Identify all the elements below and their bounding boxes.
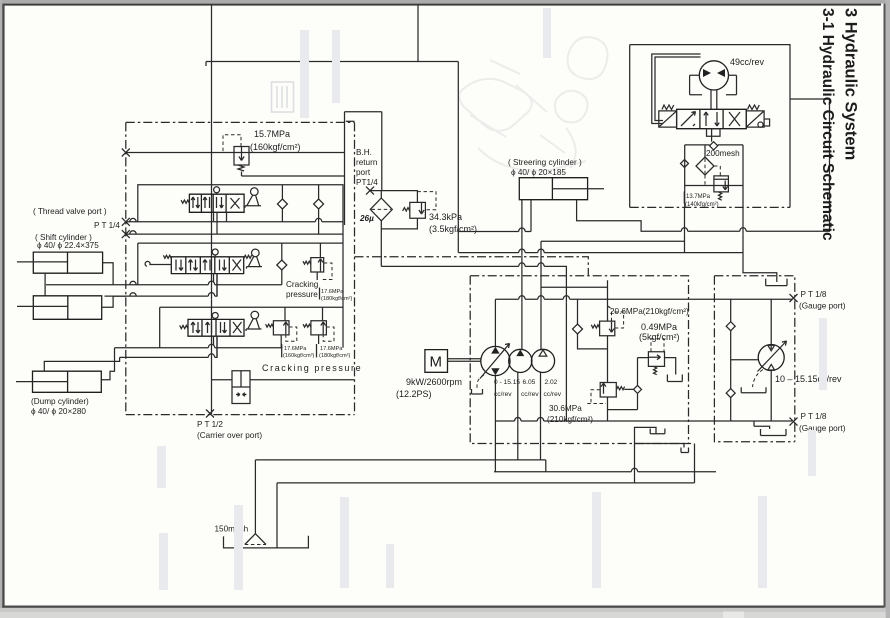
node: port X lower <box>122 230 130 238</box>
valve RV6 20.6MPa relief <box>600 321 615 336</box>
wire: right block check riser <box>730 299 732 421</box>
wire: jumper y111.7 to B.H. drop <box>345 111 382 113</box>
valve RV8 0.49MPa <box>648 352 664 367</box>
port circle of V2 <box>212 249 218 255</box>
wire: V3 bottom ports <box>214 336 218 357</box>
spring left of V4 <box>662 105 674 110</box>
wire: return L2 y482.9 <box>277 482 695 484</box>
svg-text:2.02: 2.02 <box>545 379 558 386</box>
wire: CYL1 right port <box>103 263 114 285</box>
wire: RV3 feed from row2 top <box>317 243 320 280</box>
svg-text:cc/rev: cc/rev <box>521 391 539 398</box>
spring of RV7 right <box>616 387 624 390</box>
scan bottom small tab <box>723 612 744 618</box>
valve V3 dump spool <box>188 319 244 336</box>
wire: CYL3 top port <box>44 357 119 371</box>
scan bottom gray margin <box>0 608 890 618</box>
svg-text:port: port <box>356 168 371 177</box>
scan right gray margin <box>886 0 890 618</box>
tank T0 main <box>224 536 309 548</box>
svg-text:B.H.: B.H. <box>356 148 372 157</box>
control dash of P1 <box>477 375 484 389</box>
svg-text:3-1 Hydraulic Circuit Schemati: 3-1 Hydraulic Circuit Schematic <box>819 8 836 241</box>
valve RV2 34.3kPa relief <box>410 202 426 218</box>
wire: CYL2 right port <box>102 296 126 307</box>
svg-text:0.49MPa: 0.49MPa <box>641 322 677 332</box>
port circle of V1 <box>214 187 220 193</box>
valve RV9 13.7MPa relief <box>714 176 729 192</box>
spring of V2 right <box>244 255 252 258</box>
pilot dash of RV6 <box>612 312 624 328</box>
check valve CV5 diamond <box>634 385 642 393</box>
wire: pressure gallery y299.2 <box>495 298 792 300</box>
ghost text columns (bleed-through) <box>157 446 166 488</box>
solenoid box right of V4 <box>746 111 764 127</box>
wire: row3 work line y347.8 <box>115 347 283 349</box>
svg-text:(Gauge port): (Gauge port) <box>799 302 846 311</box>
spring of RV6 <box>591 325 599 328</box>
piston rod of CYL2 <box>17 305 68 307</box>
port circle of V3 <box>212 313 218 319</box>
scan top edge dark line <box>3 4 881 6</box>
wire: pump3 feed line y287.2 into block <box>541 286 608 288</box>
spring of RV5 <box>303 324 311 327</box>
valve RV1 15.7MPa relief <box>234 147 249 166</box>
cylinder CYL4 steering <box>519 178 587 200</box>
filter F1 26u diamond <box>370 198 392 221</box>
pilot dash of RV1 <box>223 135 241 153</box>
ghost bleed-through sketch top center <box>459 79 531 131</box>
svg-text:ϕ 40/ ϕ 22.4×375: ϕ 40/ ϕ 22.4×375 <box>37 241 99 250</box>
wire: CV1 stubs <box>281 185 283 222</box>
wire: vertical supply line from page top to PT1/2 <box>211 5 213 414</box>
tank symbol of P1 control <box>472 389 483 394</box>
wire: CV5 to 0.49MPa valve <box>608 358 649 410</box>
svg-text:(3.5kgf/cm²): (3.5kgf/cm²) <box>429 224 477 234</box>
wire: pump2 bus y266.4 <box>381 266 566 421</box>
check valve CV2 diamond <box>314 199 324 209</box>
svg-text:(160kgf/cm²): (160kgf/cm²) <box>250 142 301 152</box>
pump P2 <box>509 349 532 372</box>
svg-text:30.6MPa: 30.6MPa <box>549 404 582 413</box>
pilot dash of RV5 <box>323 327 334 341</box>
svg-text:(180kgf/cm²): (180kgf/cm²) <box>319 353 351 359</box>
arrow: MT2 variable stroke <box>758 341 787 372</box>
wire: RV5 feed <box>322 307 324 321</box>
pilot dash of RV4 <box>286 327 297 341</box>
wire: relief feed riser x607.5 <box>607 280 609 421</box>
wire: bank-to-block bus y256.7 (dash-dot) <box>355 257 589 276</box>
wire: bank pressure line y152.5 with port X <box>126 152 345 154</box>
wire: RV2 drain to filter line <box>381 218 417 229</box>
svg-text:(5kgf/cm²): (5kgf/cm²) <box>639 332 680 342</box>
scan bottom lighter strip <box>0 612 890 618</box>
pump P3 <box>531 349 554 372</box>
wire: CV4 branch <box>578 299 608 349</box>
node: PT1/8 X lower <box>790 418 798 426</box>
scan right edge dark line <box>884 4 886 608</box>
svg-text:10 – 15.15cc/rev: 10 – 15.15cc/rev <box>775 374 842 384</box>
check valve CV1 diamond <box>277 199 287 209</box>
tank T3 top <box>766 278 787 286</box>
piston rod of CYL4 <box>552 188 604 190</box>
node: valve bank row2 top line <box>138 243 343 285</box>
motor M prime mover box <box>425 350 448 373</box>
wire: pilot dash to 34.3kPa valve <box>417 192 436 210</box>
svg-text:26µ: 26µ <box>359 214 374 223</box>
svg-text:(Carrier over port): (Carrier over port) <box>197 431 262 440</box>
spring of V1 <box>181 200 189 203</box>
wire: CYL4 right port path <box>577 99 830 231</box>
node: PT1/8 X upper <box>790 294 798 302</box>
mount of MT1 <box>690 75 737 94</box>
spring of RV4 <box>266 324 274 327</box>
wire: CYL4 left port vertical <box>530 200 532 232</box>
filter F2 200mesh <box>696 157 714 175</box>
wire: L2 riser to tank T1 <box>635 427 657 483</box>
spring of RV8 below <box>654 366 657 374</box>
check valve CV4 bypass diamond <box>573 324 583 334</box>
svg-text:P T 1/8: P T 1/8 <box>801 290 827 299</box>
spring of RV9 below <box>719 192 722 200</box>
wire: H_a to tank T3 <box>743 253 777 278</box>
svg-text:P T 1/2: P T 1/2 <box>197 420 223 429</box>
spring of V3 <box>180 325 188 328</box>
node: port X PT1/4 thread <box>122 218 130 226</box>
svg-text:pressure: pressure <box>286 290 318 299</box>
wire: row3 work line y357.4 <box>120 336 217 357</box>
svg-text:(210kgf/cm²): (210kgf/cm²) <box>547 415 593 424</box>
svg-text:0 - 15.15: 0 - 15.15 <box>494 379 520 386</box>
wire: steering return legs below block <box>685 207 744 252</box>
wire: drain line y421 to right block <box>608 420 793 422</box>
tank T8 <box>741 387 766 393</box>
solenoid box left of V4 <box>659 111 677 127</box>
wire: CYL3 right port <box>101 348 114 380</box>
wire: work line y234.1 <box>126 233 343 235</box>
svg-text:cc/rev: cc/rev <box>544 391 562 398</box>
svg-text:200mesh: 200mesh <box>706 149 740 158</box>
svg-text:34.3kPa: 34.3kPa <box>429 212 462 222</box>
wire: P1 suction leg <box>494 376 496 472</box>
motor MT2 variable 10-15.15cc <box>758 345 784 371</box>
spring of RV2 <box>403 208 410 211</box>
wire: RV8 drain to tank <box>665 358 676 375</box>
ghost stamp box (bleed-through) <box>272 82 294 112</box>
svg-text:6.05: 6.05 <box>523 379 536 386</box>
wire: RV4 feed <box>284 307 286 321</box>
wire: work line y221.8 with port X <box>126 221 343 223</box>
check valve CV7 bypass diamond <box>681 160 689 168</box>
drain dash of MT2 <box>753 370 764 388</box>
svg-text:17.6MPa: 17.6MPa <box>320 346 343 352</box>
scan left gray margin <box>0 0 2 618</box>
check valve CV3 diamond <box>277 260 287 270</box>
check valve CV8 diamond upper <box>726 322 735 331</box>
svg-text:M: M <box>430 354 443 371</box>
wire: return L2 y482.9 drop to tank <box>276 483 278 548</box>
wire: filter vertical through <box>380 191 382 267</box>
wire: P2 discharge riser <box>521 200 523 350</box>
svg-text:(Gauge port): (Gauge port) <box>799 424 846 433</box>
wire: V1 bottom ports <box>214 212 227 234</box>
wire: filter feed <box>704 145 706 157</box>
svg-text:17.6MPa: 17.6MPa <box>321 289 344 295</box>
wire: CYL1 bottom port to manifold <box>44 273 46 296</box>
wire: RV5 bottom stub <box>318 335 320 344</box>
pilot dash of RV8 <box>651 339 664 352</box>
pilot dash of RV3 <box>321 263 333 280</box>
node: steering block enclosure <box>630 45 790 208</box>
detent circle of V4 <box>758 122 763 127</box>
svg-text:(12.2PS): (12.2PS) <box>396 389 432 399</box>
strainer 150mesh <box>245 534 266 545</box>
wire: P1 discharge to gallery <box>494 299 496 346</box>
valve RV5 cracking relief row3 B <box>311 321 327 335</box>
arrows inside MT1 <box>703 69 711 77</box>
svg-text:(160kgf/cm³): (160kgf/cm³) <box>283 353 315 359</box>
wire: steering return H_a y252.6 <box>458 252 743 254</box>
spring of V2 left <box>163 255 171 258</box>
wire: strainer drop x255.4 <box>254 460 256 534</box>
valve V1 thread spool <box>189 194 244 212</box>
tank stub under V4 center <box>707 129 721 137</box>
wire: motor loop left <box>652 54 701 124</box>
tank T1 <box>650 429 665 434</box>
svg-text:(140kfg/cm²): (140kfg/cm²) <box>685 202 719 208</box>
check valve CV6 diamond <box>710 142 718 150</box>
piston rod of CYL1 <box>17 261 68 263</box>
svg-text:49cc/rev: 49cc/rev <box>730 57 765 67</box>
scan top gray margin <box>0 0 890 4</box>
svg-text:13.7MPa: 13.7MPa <box>686 194 711 200</box>
wire: vertical x458.3 from top bus down to steering return <box>457 62 459 253</box>
wire: vertical from page top at x418 <box>417 5 419 62</box>
svg-text:15.7MPa: 15.7MPa <box>254 129 290 139</box>
cylinder CYL2 shift lower <box>33 296 101 320</box>
arrow: P1 variable stroke <box>480 344 510 379</box>
lever handle of V2 <box>145 261 171 266</box>
lever of V3 <box>251 311 259 319</box>
node: valve bank row3 top line <box>160 307 343 348</box>
wire: suction/return L3 y471.8 <box>494 471 716 473</box>
valve RV7 30.6MPa relief <box>600 383 616 398</box>
svg-text:20.6MPa(210kgf/cm²): 20.6MPa(210kgf/cm²) <box>610 307 689 316</box>
valve V4 steering spool <box>677 109 747 128</box>
node: B.H. return port X <box>366 187 374 195</box>
wire: suction line1 y459.9 <box>255 459 545 461</box>
wire: P3 discharge riser <box>540 241 542 349</box>
cylinder CYL1 shift upper <box>33 252 102 273</box>
wire: L2 right riser <box>694 444 696 483</box>
svg-text:9kW/2600rpm: 9kW/2600rpm <box>406 377 462 387</box>
svg-text:3 Hydraulic System: 3 Hydraulic System <box>842 8 860 160</box>
pilot dash of RV7 <box>587 390 606 404</box>
node: valve bank inner box row1 <box>138 185 343 348</box>
wire: steering block lower loop y144.9 <box>685 145 743 208</box>
tank T7 <box>667 375 682 382</box>
scan left edge dark line <box>2 4 4 608</box>
wire: CYL4 left port line <box>458 231 531 233</box>
node: center valve block enclosure (dash-dot) <box>470 276 688 444</box>
wire: riser x344.5 from y111.7 to y225 <box>344 112 346 225</box>
wire: top horizontal bus y61.5 <box>206 62 458 67</box>
svg-text:(Dump cylinder): (Dump cylinder) <box>31 397 89 406</box>
svg-text:17.6MPa: 17.6MPa <box>284 346 307 352</box>
node: valve-bank outer enclosure (dash-dot box) <box>126 122 355 414</box>
wire: carrier over line y379.7 <box>212 379 355 381</box>
scan bottom edge dark line <box>2 606 884 608</box>
tank T4 bottom right <box>754 421 786 436</box>
svg-text:P T 1/4: P T 1/4 <box>94 221 120 230</box>
svg-text:Cracking pressure: Cracking pressure <box>262 363 362 373</box>
node: PT1/2 X <box>206 410 214 418</box>
wire: RV4 bottom stub <box>280 335 282 348</box>
wire: block bottom solid segment to right <box>635 443 692 445</box>
wire hops (crossing bumps) <box>130 218 746 475</box>
svg-text:PT1/4: PT1/4 <box>356 178 378 187</box>
wire: F2 drain dash <box>704 175 706 186</box>
wire: MT2 case drain <box>731 359 759 361</box>
wire: V2 bottom ports <box>214 274 218 297</box>
wire: box top link y121.3 to riser x355.6 <box>346 120 355 122</box>
wire: line1 to L3 drop <box>545 460 547 472</box>
check block CB1 carrier over <box>232 371 250 404</box>
wire: B.H. return drop x381.8 <box>381 112 383 191</box>
valve V2 shift spool <box>171 257 243 274</box>
svg-text:ϕ 40/ ϕ 20×280: ϕ 40/ ϕ 20×280 <box>31 407 86 416</box>
wire: P3 suction leg <box>540 373 542 460</box>
wire: row2 work line y296.1 <box>105 274 218 297</box>
wire: suction manifold y421 <box>495 420 607 422</box>
cylinder CYL3 dump <box>33 371 102 392</box>
pilot dash of RV9 <box>714 166 720 176</box>
check valve CV9 diamond lower <box>726 389 735 398</box>
piston rod of CYL3 <box>16 381 68 383</box>
valve RV4 cracking relief row3 A <box>273 321 289 335</box>
valve RV3 cracking relief row2 <box>311 258 324 272</box>
spring of RV3 <box>303 261 311 264</box>
node: port X at 15.7MPa line <box>122 149 130 157</box>
svg-text:Cracking: Cracking <box>286 280 319 289</box>
wire: B.H. port to 34.3kPa valve <box>370 191 417 203</box>
wire: P2 suction leg <box>517 373 519 460</box>
motor MT1 49cc/rev <box>699 61 728 90</box>
shaft: M to pump <box>448 359 482 362</box>
svg-text:( Thread valve port ): ( Thread valve port ) <box>33 207 107 216</box>
svg-text:150mesh: 150mesh <box>215 525 249 534</box>
wire: motor MT2 feed <box>770 299 772 421</box>
lever of V1 <box>251 188 259 196</box>
shaft of MT1 to valve <box>711 90 717 109</box>
wire: V4 bottom center <box>711 129 713 142</box>
svg-text:(180kgf/cm²): (180kgf/cm²) <box>321 296 353 302</box>
lever of V2 <box>252 249 260 257</box>
pump P1 variable displacement <box>481 346 510 375</box>
svg-text:return: return <box>356 158 378 167</box>
wire: relief RV1 drain line y176 <box>242 175 345 177</box>
tank T6 small <box>681 444 689 453</box>
spring of RV1 <box>238 165 244 176</box>
svg-text:P T 1/8: P T 1/8 <box>801 412 827 421</box>
wire: relief return line y185.5 <box>685 185 744 187</box>
wire: row2 work line y284.7 <box>46 284 282 286</box>
node: right block enclosure (dash-dot) <box>714 276 794 442</box>
wire: CV3 stubs <box>281 243 283 285</box>
spring right of V4 <box>748 105 760 110</box>
svg-text:cc/rev: cc/rev <box>494 391 512 398</box>
wire: CV2 stubs <box>318 185 320 234</box>
wire: P3 supply to steering block <box>541 240 685 242</box>
